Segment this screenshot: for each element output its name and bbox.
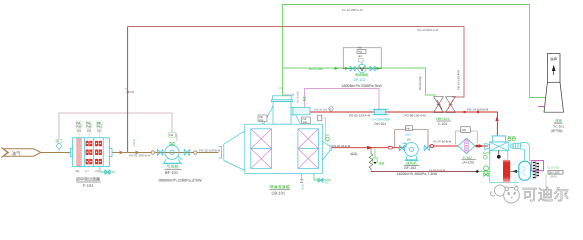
svg-text:初中效过滤器: 初中效过滤器 — [76, 177, 100, 182]
svg-text:PdI: PdI — [97, 122, 101, 125]
svg-text:PG-06-150-A-M: PG-06-150-A-M — [405, 113, 427, 117]
svg-text:PI: PI — [57, 140, 60, 143]
svg-text:PL-07-50-B-M: PL-07-50-B-M — [434, 140, 452, 144]
svg-text:油气: 油气 — [12, 151, 22, 156]
svg-text:14000m³/h,4800Pa,7.3kW: 14000m³/h,4800Pa,7.3kW — [397, 172, 438, 176]
svg-text:BF-101: BF-101 — [165, 170, 179, 175]
svg-text:CLO-101: CLO-101 — [547, 165, 560, 169]
svg-text:CB-101: CB-101 — [272, 191, 286, 196]
svg-text:(保温): (保温) — [350, 152, 358, 156]
svg-text:102: 102 — [87, 129, 92, 132]
svg-text:101: 101 — [77, 129, 82, 132]
svg-text:C-101: C-101 — [438, 122, 447, 126]
svg-text:排凝: 排凝 — [379, 162, 385, 166]
svg-text:N2-02-25A: N2-02-25A — [418, 76, 422, 90]
svg-text:G4: G4 — [76, 169, 80, 173]
svg-text:N2-01-25A: N2-01-25A — [309, 67, 323, 71]
svg-text:PG-05-150-A-M: PG-05-150-A-M — [349, 113, 371, 117]
svg-text:AI: AI — [326, 133, 329, 137]
svg-text:PdI: PdI — [86, 122, 90, 125]
svg-text:PdS: PdS — [97, 126, 102, 129]
svg-text:PdI: PdI — [169, 134, 173, 137]
svg-text:DN50: DN50 — [302, 183, 305, 190]
svg-text:PdS: PdS — [86, 126, 91, 129]
svg-text:1800Nm³/h 3300Pa,5kW: 1800Nm³/h 3300Pa,5kW — [342, 84, 383, 88]
svg-text:PdI: PdI — [462, 128, 466, 132]
svg-text:(排气筒): (排气筒) — [551, 129, 563, 133]
svg-text:送风机: 送风机 — [406, 160, 417, 165]
svg-text:电磁阀组: 电磁阀组 — [355, 73, 369, 77]
svg-text:SD: SD — [325, 181, 329, 185]
svg-text:DH-101: DH-101 — [375, 122, 387, 126]
svg-text:GF-102: GF-102 — [404, 166, 416, 170]
svg-text:F-101: F-101 — [83, 183, 94, 188]
svg-text:消声: 消声 — [550, 57, 558, 62]
svg-text:(备用): (备用) — [550, 175, 557, 179]
svg-text:PG-14-150-B-M: PG-14-150-B-M — [467, 108, 489, 112]
svg-text:PdI: PdI — [358, 47, 362, 50]
svg-text:PG-12-150-B-M: PG-12-150-B-M — [199, 149, 221, 153]
svg-text:PL-08-25-B-M: PL-08-25-B-M — [429, 169, 445, 172]
svg-text:U&C: U&C — [405, 132, 412, 136]
svg-text:PG-05-150: PG-05-150 — [315, 109, 328, 112]
svg-text:PG-15-150-A-M: PG-15-150-A-M — [457, 70, 461, 90]
svg-text:E-102: E-102 — [463, 156, 472, 160]
svg-text:排放: 排放 — [555, 119, 562, 123]
svg-text:PL-16-200-A-M: PL-16-200-A-M — [342, 8, 363, 12]
svg-text:801: 801 — [358, 55, 363, 58]
svg-text:FIQ: FIQ — [358, 51, 362, 54]
svg-text:喷淋洗涤塔: 喷淋洗涤塔 — [270, 185, 290, 190]
svg-text:XBH-101: XBH-101 — [436, 117, 450, 121]
svg-text:15-65A: 15-65A — [176, 133, 179, 141]
svg-text:PG-01-200-B-M: PG-01-200-B-M — [129, 154, 151, 158]
svg-text:(FI): (FI) — [407, 138, 411, 141]
svg-text:引风机: 引风机 — [167, 164, 179, 169]
svg-text:BH-103: BH-103 — [549, 170, 560, 174]
svg-text:103: 103 — [97, 129, 102, 132]
svg-text:PI: PI — [329, 108, 332, 111]
svg-text:HD-01: HD-01 — [127, 90, 136, 94]
svg-text:PdI: PdI — [406, 127, 410, 130]
svg-text:98000m³/h,2280Pa,37kW: 98000m³/h,2280Pa,37kW — [159, 179, 202, 183]
svg-text:AI-FQ: AI-FQ — [483, 151, 492, 155]
svg-text:104: 104 — [303, 121, 308, 124]
svg-text:(A=120): (A=120) — [463, 160, 474, 164]
svg-text:PG-15-200-A-M: PG-15-200-A-M — [417, 28, 439, 32]
svg-text:103: 103 — [259, 119, 264, 122]
svg-text:XC-101: XC-101 — [553, 125, 564, 129]
svg-text:PG-11: PG-11 — [133, 138, 136, 146]
svg-text:可迪尔: 可迪尔 — [522, 186, 570, 204]
svg-text:N2-15-25A: N2-15-25A — [297, 91, 300, 103]
svg-text:PG-04-40-B-M: PG-04-40-B-M — [332, 144, 351, 148]
svg-text:SP-102: SP-102 — [354, 78, 366, 82]
svg-text:PdI: PdI — [76, 122, 80, 125]
svg-text:F7: F7 — [86, 169, 90, 173]
svg-text:F8: F8 — [96, 169, 100, 173]
svg-text:PdS: PdS — [76, 126, 81, 129]
svg-text:N2H-15A: N2H-15A — [284, 93, 295, 96]
